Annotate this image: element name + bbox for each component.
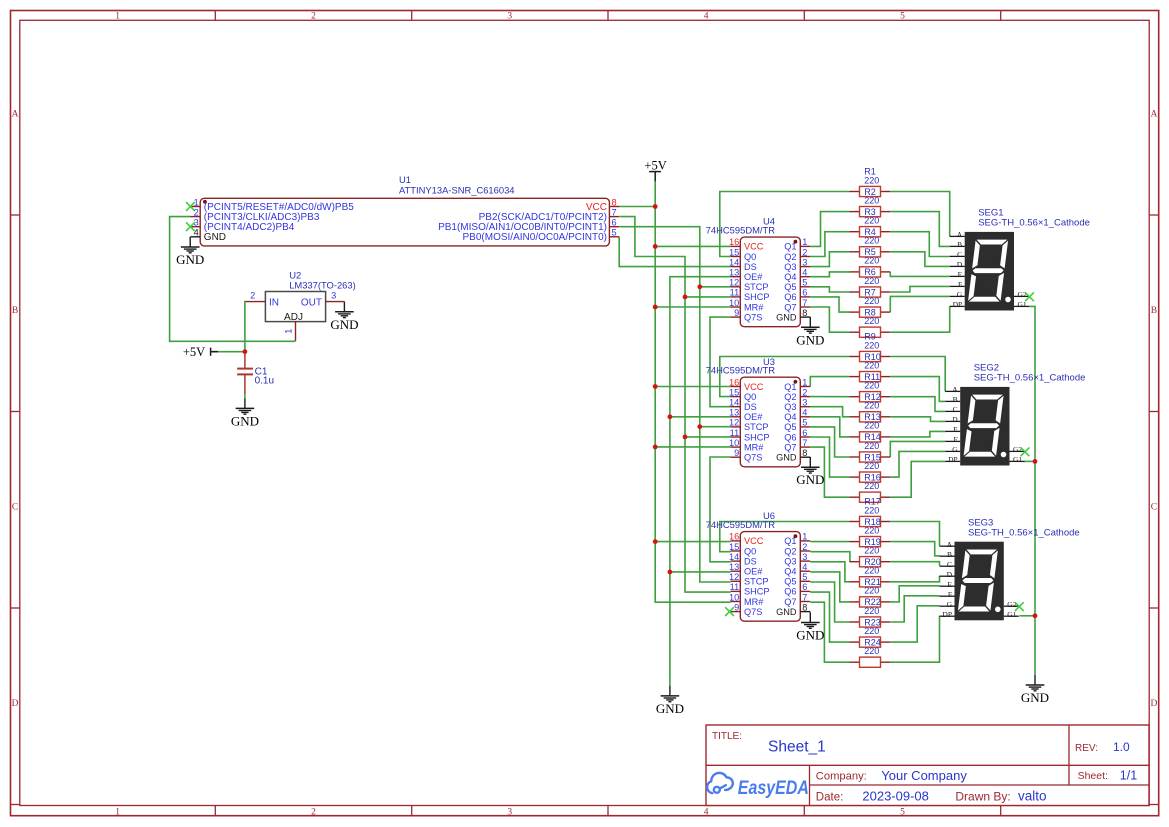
svg-text:1: 1 xyxy=(115,11,120,21)
svg-text:ATTINY13A-SNR_C616034: ATTINY13A-SNR_C616034 xyxy=(399,184,515,195)
svg-text:14: 14 xyxy=(729,552,739,562)
svg-text:D: D xyxy=(952,415,958,424)
svg-text:220: 220 xyxy=(864,401,879,411)
svg-text:220: 220 xyxy=(864,216,879,226)
svg-text:B: B xyxy=(953,395,958,404)
svg-text:F: F xyxy=(948,590,952,599)
svg-text:14: 14 xyxy=(729,257,739,267)
svg-text:15: 15 xyxy=(729,247,739,257)
svg-text:220: 220 xyxy=(864,481,879,491)
svg-text:STCP: STCP xyxy=(744,282,769,292)
svg-text:1: 1 xyxy=(194,197,199,207)
svg-text:DP: DP xyxy=(953,300,963,309)
svg-text:OE#: OE# xyxy=(744,412,763,422)
svg-text:7: 7 xyxy=(802,438,807,448)
svg-text:220: 220 xyxy=(864,505,879,515)
svg-text:DP: DP xyxy=(942,610,952,619)
svg-text:D: D xyxy=(947,570,953,579)
svg-text:A: A xyxy=(957,230,963,239)
svg-text:Q2: Q2 xyxy=(784,392,796,402)
svg-text:DS: DS xyxy=(744,262,757,272)
svg-text:Q5: Q5 xyxy=(784,422,796,432)
svg-text:9: 9 xyxy=(734,448,739,458)
svg-text:15: 15 xyxy=(729,387,739,397)
svg-text:10: 10 xyxy=(729,298,739,308)
svg-text:Q4: Q4 xyxy=(784,412,796,422)
svg-text:220: 220 xyxy=(864,340,879,350)
svg-text:13: 13 xyxy=(729,408,739,418)
svg-text:Q5: Q5 xyxy=(784,577,796,587)
svg-text:220: 220 xyxy=(864,461,879,471)
svg-text:4: 4 xyxy=(194,228,199,238)
svg-text:GND: GND xyxy=(776,453,797,463)
svg-text:G2: G2 xyxy=(1007,600,1016,609)
svg-text:6: 6 xyxy=(802,428,807,438)
svg-text:1: 1 xyxy=(802,532,807,542)
svg-text:D: D xyxy=(957,260,963,269)
svg-text:+5V: +5V xyxy=(183,345,205,359)
svg-text:220: 220 xyxy=(864,360,879,370)
svg-text:220: 220 xyxy=(864,381,879,391)
svg-text:11: 11 xyxy=(730,288,740,298)
svg-text:Q1: Q1 xyxy=(784,382,796,392)
svg-text:C: C xyxy=(957,250,962,259)
svg-text:15: 15 xyxy=(729,542,739,552)
svg-text:5: 5 xyxy=(802,278,807,288)
svg-text:Q7S: Q7S xyxy=(744,312,762,322)
svg-text:220: 220 xyxy=(864,236,879,246)
svg-text:B: B xyxy=(1151,306,1157,316)
svg-text:220: 220 xyxy=(864,546,879,556)
svg-text:2: 2 xyxy=(802,542,807,552)
svg-text:OE#: OE# xyxy=(744,567,763,577)
svg-text:F: F xyxy=(958,280,962,289)
svg-text:3: 3 xyxy=(194,218,199,228)
svg-text:Sheet_1: Sheet_1 xyxy=(768,739,826,756)
svg-text:220: 220 xyxy=(864,276,879,286)
svg-text:1: 1 xyxy=(802,237,807,247)
svg-text:VCC: VCC xyxy=(744,382,764,392)
svg-text:220: 220 xyxy=(864,316,879,326)
svg-text:16: 16 xyxy=(729,377,739,387)
svg-text:DS: DS xyxy=(744,402,757,412)
svg-text:11: 11 xyxy=(730,428,740,438)
svg-text:GND: GND xyxy=(330,317,358,332)
svg-text:Sheet:: Sheet: xyxy=(1078,770,1108,782)
svg-text:Q7: Q7 xyxy=(784,302,796,312)
svg-text:G2: G2 xyxy=(1018,290,1027,299)
svg-text:Q0: Q0 xyxy=(744,392,756,402)
svg-text:TITLE:: TITLE: xyxy=(712,731,742,742)
svg-text:Q0: Q0 xyxy=(744,546,756,556)
svg-text:SHCP: SHCP xyxy=(744,292,770,302)
svg-text:220: 220 xyxy=(864,586,879,596)
svg-text:9: 9 xyxy=(734,602,739,612)
svg-text:G: G xyxy=(952,445,958,454)
svg-text:6: 6 xyxy=(802,288,807,298)
svg-text:E: E xyxy=(953,425,958,434)
svg-text:10: 10 xyxy=(729,438,739,448)
svg-text:220: 220 xyxy=(864,646,879,656)
svg-text:13: 13 xyxy=(729,268,739,278)
svg-text:Q3: Q3 xyxy=(784,262,796,272)
svg-text:GND: GND xyxy=(656,701,684,716)
svg-text:G: G xyxy=(957,290,963,299)
svg-text:0.1u: 0.1u xyxy=(255,376,274,387)
svg-text:16: 16 xyxy=(729,237,739,247)
svg-text:OUT: OUT xyxy=(301,297,322,308)
svg-text:B: B xyxy=(947,550,952,559)
svg-text:Q7S: Q7S xyxy=(744,607,762,617)
svg-text:3: 3 xyxy=(802,398,807,408)
svg-text:MR#: MR# xyxy=(744,302,764,312)
svg-text:SHCP: SHCP xyxy=(744,587,770,597)
svg-text:Drawn By:: Drawn By: xyxy=(955,790,1010,804)
svg-text:12: 12 xyxy=(729,278,739,288)
svg-text:12: 12 xyxy=(729,572,739,582)
svg-text:220: 220 xyxy=(864,175,879,185)
svg-text:STCP: STCP xyxy=(744,577,769,587)
svg-text:A: A xyxy=(12,110,19,120)
svg-text:MR#: MR# xyxy=(744,597,764,607)
svg-text:IN: IN xyxy=(269,297,279,308)
svg-text:10: 10 xyxy=(729,592,739,602)
svg-text:74HC595DM/TR: 74HC595DM/TR xyxy=(706,365,776,376)
svg-text:11: 11 xyxy=(730,582,740,592)
svg-text:Q3: Q3 xyxy=(784,402,796,412)
svg-text:GND: GND xyxy=(796,472,824,487)
svg-text:Q0: Q0 xyxy=(744,252,756,262)
svg-text:4: 4 xyxy=(802,562,807,572)
svg-text:ADJ: ADJ xyxy=(284,312,303,323)
svg-text:F: F xyxy=(954,435,958,444)
svg-text:GND: GND xyxy=(176,252,204,267)
svg-text:4: 4 xyxy=(802,268,807,278)
svg-text:14: 14 xyxy=(729,398,739,408)
svg-text:G: G xyxy=(947,600,953,609)
svg-text:G2: G2 xyxy=(1013,445,1022,454)
svg-text:GND: GND xyxy=(1021,690,1049,705)
svg-text:7: 7 xyxy=(802,592,807,602)
svg-text:Q3: Q3 xyxy=(784,556,796,566)
svg-text:2: 2 xyxy=(250,291,255,301)
svg-text:valto: valto xyxy=(1018,788,1047,803)
svg-text:MR#: MR# xyxy=(744,442,764,452)
svg-text:EasyEDA: EasyEDA xyxy=(738,777,809,799)
svg-text:4: 4 xyxy=(704,807,709,817)
svg-text:B: B xyxy=(957,240,962,249)
svg-text:5: 5 xyxy=(802,572,807,582)
svg-text:Q2: Q2 xyxy=(784,252,796,262)
svg-text:8: 8 xyxy=(612,197,617,207)
svg-text:GND: GND xyxy=(796,628,824,643)
svg-text:Q2: Q2 xyxy=(784,546,796,556)
svg-text:2: 2 xyxy=(311,11,316,21)
svg-text:5: 5 xyxy=(900,807,905,817)
svg-text:VCC: VCC xyxy=(744,536,764,546)
svg-text:D: D xyxy=(12,699,19,709)
svg-text:220: 220 xyxy=(864,606,879,616)
svg-text:1/1: 1/1 xyxy=(1120,769,1137,783)
svg-text:Q1: Q1 xyxy=(784,242,796,252)
svg-text:220: 220 xyxy=(864,421,879,431)
svg-text:Date:: Date: xyxy=(816,792,844,804)
svg-text:4: 4 xyxy=(802,408,807,418)
svg-text:3: 3 xyxy=(507,11,512,21)
svg-text:A: A xyxy=(947,540,953,549)
svg-text:7: 7 xyxy=(802,298,807,308)
svg-text:Q4: Q4 xyxy=(784,272,796,282)
svg-text:5: 5 xyxy=(802,418,807,428)
svg-text:C: C xyxy=(947,560,952,569)
svg-text:220: 220 xyxy=(864,626,879,636)
svg-text:GND: GND xyxy=(204,232,226,243)
svg-text:OE#: OE# xyxy=(744,272,763,282)
svg-text:GND: GND xyxy=(776,312,797,322)
svg-text:220: 220 xyxy=(864,195,879,205)
svg-text:220: 220 xyxy=(864,525,879,535)
svg-text:3: 3 xyxy=(802,552,807,562)
svg-text:220: 220 xyxy=(864,566,879,576)
svg-text:74HC595DM/TR: 74HC595DM/TR xyxy=(706,225,776,236)
svg-text:GND: GND xyxy=(231,413,259,428)
svg-text:2: 2 xyxy=(311,807,316,817)
svg-text:2023-09-08: 2023-09-08 xyxy=(862,789,929,804)
svg-text:220: 220 xyxy=(864,256,879,266)
svg-text:Your Company: Your Company xyxy=(881,768,967,783)
svg-text:Q6: Q6 xyxy=(784,292,796,302)
svg-text:Q4: Q4 xyxy=(784,567,796,577)
svg-text:LM337(TO-263): LM337(TO-263) xyxy=(289,279,356,290)
svg-text:Q6: Q6 xyxy=(784,587,796,597)
svg-text:2: 2 xyxy=(194,207,199,217)
svg-text:6: 6 xyxy=(612,218,617,228)
svg-text:GND: GND xyxy=(796,332,824,347)
svg-text:1: 1 xyxy=(802,377,807,387)
svg-text:A: A xyxy=(1150,110,1157,120)
svg-text:SEG-TH_0.56×1_Cathode: SEG-TH_0.56×1_Cathode xyxy=(968,527,1080,538)
svg-text:12: 12 xyxy=(729,418,739,428)
svg-text:Company:: Company: xyxy=(816,771,867,783)
svg-text:Q6: Q6 xyxy=(784,432,796,442)
svg-text:5: 5 xyxy=(612,228,617,238)
svg-text:3: 3 xyxy=(507,807,512,817)
svg-text:74HC595DM/TR: 74HC595DM/TR xyxy=(706,519,776,530)
svg-text:Q5: Q5 xyxy=(784,282,796,292)
svg-text:3: 3 xyxy=(802,257,807,267)
svg-text:PB0(MOSI/AIN0/OC0A/PCINT0): PB0(MOSI/AIN0/OC0A/PCINT0) xyxy=(463,232,607,243)
svg-text:REV:: REV: xyxy=(1075,743,1098,754)
svg-text:4: 4 xyxy=(704,11,709,21)
svg-text:16: 16 xyxy=(729,532,739,542)
svg-text:9: 9 xyxy=(734,308,739,318)
svg-text:3: 3 xyxy=(331,291,336,301)
svg-text:1.0: 1.0 xyxy=(1113,740,1130,754)
svg-text:VCC: VCC xyxy=(744,242,764,252)
svg-text:E: E xyxy=(947,580,952,589)
svg-text:2: 2 xyxy=(802,247,807,257)
svg-text:2: 2 xyxy=(802,387,807,397)
svg-text:C: C xyxy=(1151,503,1157,513)
svg-text:Q7: Q7 xyxy=(784,597,796,607)
svg-text:DP: DP xyxy=(948,455,958,464)
svg-text:Q7S: Q7S xyxy=(744,453,762,463)
svg-text:+5V: +5V xyxy=(644,158,666,172)
svg-text:6: 6 xyxy=(802,582,807,592)
svg-text:SEG-TH_0.56×1_Cathode: SEG-TH_0.56×1_Cathode xyxy=(974,373,1086,384)
svg-text:STCP: STCP xyxy=(744,422,769,432)
svg-text:E: E xyxy=(958,270,963,279)
svg-text:13: 13 xyxy=(729,562,739,572)
svg-text:A: A xyxy=(952,385,958,394)
svg-text:Q1: Q1 xyxy=(784,536,796,546)
svg-text:1: 1 xyxy=(115,807,120,817)
svg-text:5: 5 xyxy=(900,11,905,21)
svg-text:SHCP: SHCP xyxy=(744,432,770,442)
svg-text:Q7: Q7 xyxy=(784,442,796,452)
svg-text:220: 220 xyxy=(864,441,879,451)
svg-text:D: D xyxy=(1150,699,1157,709)
svg-text:7: 7 xyxy=(612,207,617,217)
svg-text:GND: GND xyxy=(776,607,797,617)
svg-text:C: C xyxy=(12,503,18,513)
svg-text:B: B xyxy=(12,306,18,316)
svg-text:1: 1 xyxy=(284,329,295,334)
svg-text:C: C xyxy=(953,405,958,414)
svg-text:SEG-TH_0.56×1_Cathode: SEG-TH_0.56×1_Cathode xyxy=(978,218,1090,229)
svg-text:DS: DS xyxy=(744,556,757,566)
svg-text:220: 220 xyxy=(864,296,879,306)
